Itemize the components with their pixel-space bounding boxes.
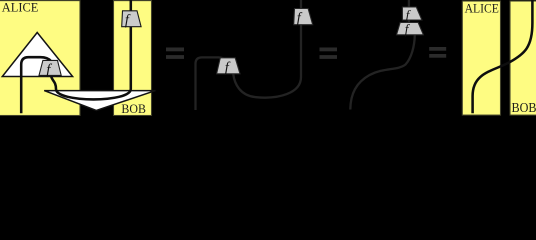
svg-text:ALICE: ALICE: [2, 1, 39, 15]
svg-text:BOB: BOB: [512, 100, 536, 115]
wire input (Alice, bottom-left up and bend into f): [21, 57, 51, 113]
box f (T3, diagram 2): [217, 58, 240, 74]
wire S-curve (diagram 3, bottom to boxes): [350, 35, 415, 110]
equals sign 1: [166, 48, 184, 52]
box f (T5, diagram 3 top): [402, 7, 422, 20]
equals sign 3: [429, 47, 446, 51]
box f (T1, Alice): [39, 60, 61, 75]
box f (T2, Bob): [122, 11, 141, 27]
node BOB region (left diagram): [114, 1, 152, 116]
wire cup (from f down through cup and up to Bob top): [51, 0, 131, 99]
state triangle (up-pointing, Alice): [2, 33, 72, 77]
node BOB region (right diagram): [510, 1, 536, 115]
wire input (diagram 2 left): [196, 57, 226, 110]
svg-text:ALICE: ALICE: [465, 2, 500, 16]
node ALICE region (left diagram): [0, 1, 80, 116]
wire cup (diagram 2, f down around and up through f): [233, 0, 301, 98]
wire top (diagram 3, through boxes to top): [408, 0, 410, 24]
node ALICE region (right diagram): [462, 1, 500, 115]
wire S-curve (right diagram, teleported state): [473, 0, 533, 113]
box f (T4, diagram 2): [294, 9, 313, 25]
svg-text:BOB: BOB: [121, 101, 146, 116]
box f (T6, diagram 3 bottom): [397, 22, 424, 34]
cup triangle (down-pointing, Bell state): [44, 91, 155, 111]
equals sign 2: [320, 48, 338, 52]
